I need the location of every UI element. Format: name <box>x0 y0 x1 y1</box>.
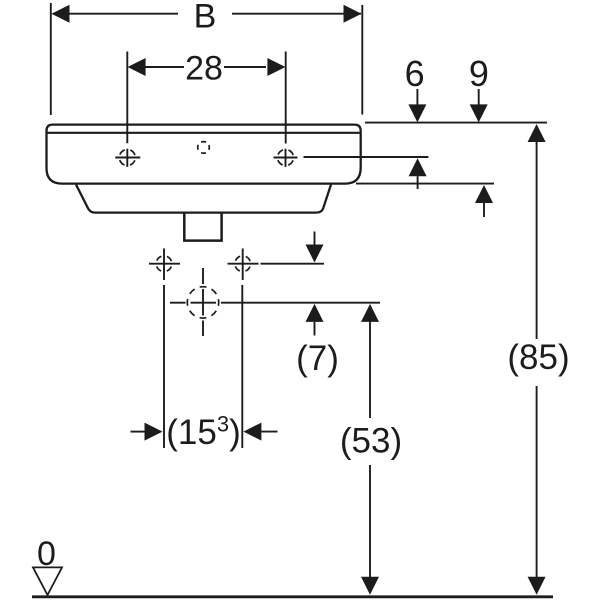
dimension 85 vertical line <box>536 141 538 339</box>
arrow 7 up <box>306 304 324 322</box>
arrow 53 down <box>361 577 379 595</box>
dimension line 28 <box>145 66 184 68</box>
svg-text:(53): (53) <box>340 422 402 461</box>
svg-text:28: 28 <box>185 50 223 88</box>
extension line B right <box>361 5 363 115</box>
arrow 85 up <box>528 124 546 142</box>
drain outlet rectangle <box>184 213 221 240</box>
extension line B left <box>50 3 52 115</box>
centerline below fixing hole left <box>163 285 165 448</box>
arrow 7 down <box>314 232 316 246</box>
arrow 6 down <box>416 89 418 105</box>
fixing hole right <box>228 249 259 281</box>
washbasin rim inner line <box>48 132 360 134</box>
arrow 85 down <box>528 577 546 595</box>
overflow hole <box>198 142 210 154</box>
arrow 53 up <box>361 304 379 322</box>
reference line top edge <box>365 122 547 124</box>
dimension 53 vertical line <box>369 321 371 418</box>
arrowhead B right <box>344 5 362 23</box>
tap hole right <box>274 149 298 167</box>
arrow 9 up <box>475 185 493 203</box>
arrowhead B left <box>52 5 70 23</box>
centerline below fixing hole right <box>241 285 243 448</box>
arrowhead 15-3 right <box>243 423 261 441</box>
svg-text:(7): (7) <box>296 339 339 378</box>
extension line 28 right <box>285 52 287 144</box>
svg-text:9: 9 <box>469 53 489 94</box>
reference line trap level <box>170 302 186 304</box>
arrow 6 up <box>409 158 427 176</box>
trap connection circle <box>187 287 218 318</box>
trap vertical centerline <box>202 268 204 284</box>
svg-text:(85): (85) <box>507 338 569 377</box>
svg-text:B: B <box>194 0 217 35</box>
dimension 15-3 line left <box>131 431 147 433</box>
fixing hole left <box>149 249 180 281</box>
arrowhead 28 left <box>128 58 146 76</box>
reference line rim bottom <box>356 183 494 185</box>
arrow 9 down <box>478 89 480 105</box>
dimension line B <box>53 13 178 15</box>
arrowhead 15-3 left <box>145 423 163 441</box>
svg-text:6: 6 <box>405 53 425 94</box>
dimension 15-3 line right <box>261 431 277 433</box>
datum triangle <box>33 567 62 595</box>
extension line 28 left <box>126 52 128 144</box>
svg-text:(153): (153) <box>166 412 241 452</box>
tap hole left <box>115 149 140 167</box>
arrowhead 28 right <box>267 58 285 76</box>
washbasin bowl outline <box>76 185 331 213</box>
reference line tap level <box>304 156 429 158</box>
reference line fixing level <box>261 263 325 265</box>
ground line <box>32 595 553 598</box>
washbasin rim outline <box>47 125 361 184</box>
